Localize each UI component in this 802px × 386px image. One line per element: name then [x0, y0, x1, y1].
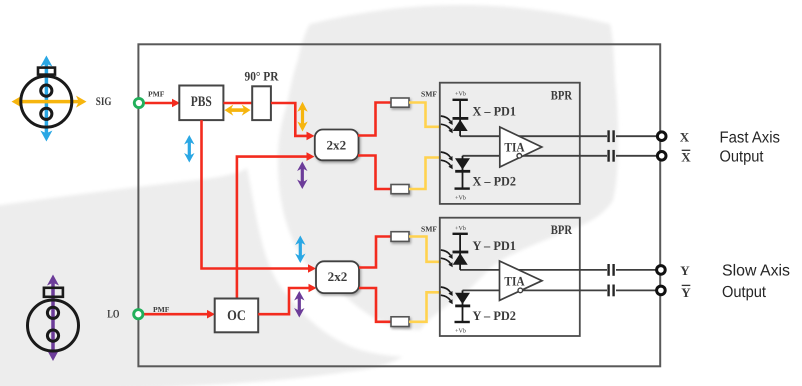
svg-text:Output: Output — [722, 284, 767, 301]
Y output line lower — [463, 289, 608, 291]
wire PBS down to 2x2 lower module input — [202, 120, 317, 273]
svg-text:OC: OC — [227, 308, 246, 324]
light arrows into X-PD2 — [441, 152, 451, 157]
svg-text:PMF: PMF — [153, 305, 170, 314]
svg-text:2x2: 2x2 — [327, 138, 347, 153]
light arrows into Y-PD2 — [441, 287, 451, 292]
capacitor Y out upper — [609, 264, 614, 276]
svg-text:BPR: BPR — [551, 88, 573, 103]
outer module box — [138, 44, 660, 366]
svg-text:PBS: PBS — [191, 94, 212, 110]
cyan state arrow above 2x2 lower input — [295, 236, 305, 264]
svg-text:+Vb: +Vb — [455, 225, 466, 232]
2x2 coupler box upper — [315, 130, 359, 161]
TIA amp Y — [500, 261, 543, 300]
svg-text:Output: Output — [720, 149, 765, 166]
svg-text:PMF: PMF — [148, 90, 165, 99]
photodiode X-PD1 — [441, 91, 469, 137]
X output line upper — [460, 135, 607, 137]
splice block R2 — [391, 185, 409, 194]
svg-text:SIG: SIG — [96, 96, 112, 108]
svg-text:Fast Axis: Fast Axis — [720, 130, 781, 147]
wire OC to 2x2 lower input — [258, 284, 316, 315]
output terminal Y — [657, 266, 666, 275]
svg-text:2x2: 2x2 — [328, 269, 348, 284]
SMF wire to X-PD1 — [409, 103, 441, 127]
purple polarization arrow (LO vertical) — [47, 275, 59, 362]
output terminal Xbar — [657, 152, 666, 161]
svg-text:+Vb: +Vb — [455, 91, 466, 98]
svg-text:BPR: BPR — [551, 222, 573, 237]
wire OC up to 2x2 upper module input — [237, 152, 315, 298]
svg-text:Y: Y — [681, 285, 691, 300]
svg-text:X – PD2: X – PD2 — [473, 173, 517, 188]
capacitor X out lower — [609, 150, 614, 162]
svg-text:Slow Axis: Slow Axis — [722, 263, 790, 280]
light arrows into X-PD1 — [441, 116, 451, 121]
SMF wire to X-PD2 — [409, 158, 441, 190]
stress rod circle bottom — [41, 108, 52, 119]
photodiode Y-PD2 — [441, 287, 470, 335]
svg-text:X: X — [680, 130, 690, 145]
cyan state arrow below PBS — [184, 135, 194, 163]
capacitor X out upper — [609, 130, 614, 142]
purple state arrow below 2x2 lower input — [294, 291, 304, 318]
connector key rectangle — [44, 288, 63, 297]
connector key rectangle — [38, 68, 55, 75]
yellow state arrow at 2x2 upper input — [297, 102, 307, 132]
SMF wire to Y-PD2 — [409, 292, 441, 322]
wire 90PR to 2x2 upper — [271, 103, 315, 140]
LO fiber end-face symbol — [28, 275, 79, 362]
label Ybar — [681, 285, 691, 300]
purple state arrow below 2x2 upper — [297, 162, 307, 190]
connector body circle — [21, 76, 72, 127]
stress rod circle top — [47, 307, 58, 318]
SIG fiber end-face symbol — [12, 56, 87, 142]
svg-text:Y – PD1: Y – PD1 — [473, 238, 517, 253]
connector body circle — [28, 300, 79, 351]
wire 2x2 lower out1 — [359, 237, 391, 268]
wire 2x2 lower out2 — [359, 288, 391, 322]
output terminal X — [657, 132, 666, 141]
TIA amp X — [500, 127, 542, 167]
svg-text:90° PR: 90° PR — [245, 69, 280, 84]
label Xbar — [681, 150, 691, 165]
svg-text:TIA: TIA — [504, 274, 525, 289]
photodiode Y-PD1 — [441, 225, 469, 270]
splice block R3 — [391, 232, 409, 242]
wire PBS to 90PR — [223, 102, 252, 105]
output terminal Ybar — [657, 286, 666, 295]
yellow polarization arrow (SIG horizontal) — [12, 96, 87, 108]
yellow H/V state arrow after PBS — [225, 105, 251, 116]
PBS box — [179, 86, 223, 121]
SMF wire to Y-PD1 — [409, 237, 441, 262]
Y output line upper — [460, 269, 607, 271]
svg-text:SMF: SMF — [421, 224, 437, 233]
svg-text:TIA: TIA — [504, 140, 525, 155]
X output line lower — [463, 155, 608, 157]
light arrows into Y-PD1 — [441, 250, 451, 255]
svg-text:SMF: SMF — [421, 90, 437, 99]
svg-text:+Vb: +Vb — [455, 195, 466, 202]
capacitor Y out lower — [609, 285, 614, 297]
connector SIG port — [134, 98, 143, 107]
cyan polarization arrow (SIG vertical) — [40, 56, 52, 142]
wire LO to OC — [143, 310, 215, 319]
svg-text:Y – PD2: Y – PD2 — [473, 308, 517, 323]
svg-text:Y: Y — [680, 263, 690, 278]
splice block R1 — [391, 98, 409, 107]
wire 2x2 upper out1 — [358, 103, 391, 136]
splice block R4 — [391, 317, 409, 327]
svg-text:X: X — [681, 150, 691, 165]
photodiode X-PD2 — [441, 152, 470, 202]
wire SIG to PBS — [144, 99, 180, 108]
connector LO port — [134, 310, 143, 319]
BPR box Y — [440, 218, 580, 336]
wire 2x2 upper out2 — [358, 156, 391, 190]
svg-text:X – PD1: X – PD1 — [473, 104, 517, 119]
stress rod circle top — [41, 85, 52, 96]
svg-text:LO: LO — [107, 309, 119, 321]
stress rod circle bottom — [47, 330, 58, 341]
OC box — [215, 299, 259, 333]
svg-text:+Vb: +Vb — [455, 328, 466, 335]
2x2 coupler box lower — [316, 261, 359, 293]
BPR box X — [440, 83, 580, 204]
90deg PR box — [252, 86, 271, 120]
